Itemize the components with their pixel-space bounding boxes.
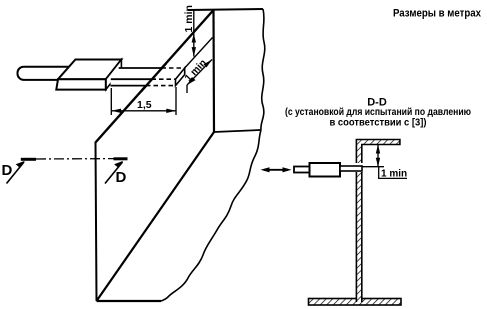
bar level extension diagonal — [185, 38, 213, 69]
dim 1,5 left arrowhead — [111, 109, 121, 113]
dim 1 min vertical line — [193, 10, 195, 57]
wall sloped top-left edge — [95, 10, 214, 143]
wall long diagonal edge — [97, 132, 215, 301]
dim 1 min diagonal arrowhead upper — [204, 60, 213, 68]
wall corner vertical edge — [212, 10, 215, 132]
probe bar front bottom edge solid — [111, 85, 147, 87]
section line D-D dash-dot — [36, 158, 114, 160]
section arrow right — [105, 162, 123, 184]
section arrow left — [7, 162, 25, 184]
svg-text:в соответствии с [3]): в соответствии с [3]) — [330, 118, 427, 129]
section probe rod through wall — [340, 166, 362, 171]
section line left thick end — [21, 158, 36, 161]
svg-text:1 min: 1 min — [381, 169, 407, 180]
section line right thick end — [114, 157, 128, 160]
dim 1,5 dimension line — [111, 110, 176, 112]
section top flange and upper wall L-shape hatched — [356, 140, 400, 164]
section dim 1 min vertical — [377, 145, 379, 167]
section extension line — [362, 166, 384, 168]
section dim leader — [379, 167, 407, 179]
svg-text:1,5: 1,5 — [137, 99, 152, 111]
svg-text:1 min: 1 min — [183, 5, 195, 32]
probe bar front top edge dashed — [152, 78, 176, 80]
dim 1,5 left extension line — [110, 88, 112, 115]
wall left vertical edge — [96, 143, 97, 301]
section bottom flange hatched — [309, 299, 402, 306]
dim 1 min down arrowhead — [192, 47, 196, 56]
probe box front face — [56, 79, 106, 89]
dim 1,5 right arrowhead — [166, 109, 176, 113]
probe bar back top edge solid — [119, 67, 162, 69]
wall break line lower wavy — [161, 130, 261, 301]
probe bar front face — [111, 79, 176, 85]
probe bar back top edge dashed — [162, 67, 185, 69]
probe bar front bottom edge dashed — [146, 85, 176, 87]
svg-text:D: D — [116, 169, 127, 186]
section probe tip rod — [294, 167, 310, 173]
probe box right face — [106, 60, 122, 90]
probe bar end face — [176, 68, 185, 86]
wall sloped edge over bar — [141, 64, 166, 92]
wall bottom edge — [97, 300, 162, 302]
dim 1 min diagonal extension — [186, 85, 188, 93]
wall inner edge — [214, 130, 261, 132]
dim 1 min up arrowhead — [192, 34, 196, 43]
wall break line upper wavy — [261, 9, 265, 130]
probe bar front top edge solid — [111, 78, 152, 80]
section wall lower strip hatched — [356, 172, 361, 302]
wall top edge — [188, 9, 263, 10]
probe handle cylinder — [18, 67, 80, 80]
probe bar top face — [111, 68, 185, 79]
dim 1,5 right extension line — [175, 87, 177, 115]
svg-text:Размеры в метрах: Размеры в метрах — [393, 8, 482, 20]
section probe body — [310, 163, 341, 177]
svg-text:(с установкой для испытаний по: (с установкой для испытаний по давлению — [285, 107, 471, 118]
dim 1 min diagonal arrowhead lower — [187, 77, 196, 85]
svg-text:D: D — [2, 162, 13, 179]
section probe double arrow — [264, 169, 288, 171]
probe box top face — [58, 60, 121, 80]
dim 1 min diagonal line — [187, 60, 212, 86]
